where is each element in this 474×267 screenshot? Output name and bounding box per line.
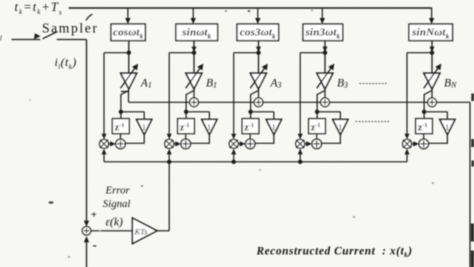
svg-text:1: 1 — [207, 122, 211, 132]
svg-text:ε(k): ε(k) — [106, 216, 123, 228]
svg-text:sinωtk: sinωtk — [181, 27, 211, 41]
svg-text:1: 1 — [338, 122, 342, 132]
svg-text:Sampler: Sampler — [42, 21, 99, 36]
svg-text:-: - — [93, 237, 97, 252]
svg-text:1: 1 — [142, 122, 146, 132]
svg-text:Error: Error — [105, 184, 131, 196]
svg-text:Reconstructed Current : x(tk): Reconstructed Current : x(tk) — [256, 245, 413, 259]
svg-text:sinNωtk: sinNωtk — [411, 27, 450, 41]
svg-text:Signal: Signal — [103, 198, 131, 210]
svg-text:1: 1 — [445, 122, 449, 132]
svg-text:cos3ωtk: cos3ωtk — [240, 27, 276, 41]
svg-text:+: + — [91, 210, 97, 221]
svg-text:il(tk): il(tk) — [55, 55, 77, 71]
svg-text:KTs: KTs — [134, 226, 149, 236]
svg-text:sin3ωtk: sin3ωtk — [304, 27, 340, 41]
svg-text:cosωtk: cosωtk — [113, 27, 144, 41]
svg-text:1: 1 — [272, 122, 276, 132]
